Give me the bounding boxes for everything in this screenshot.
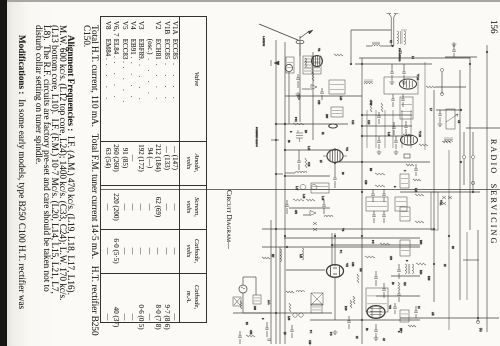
capacitor C11 [377, 136, 381, 149]
small ellipse top cap [329, 124, 337, 128]
hatched box L9 [311, 304, 322, 313]
capacitor C26 [397, 290, 401, 302]
valve V2 ECH81 (triode-heptode) [312, 56, 323, 67]
capacitor C18 [382, 189, 386, 202]
wire lamp [243, 293, 271, 313]
resistor R16 [380, 243, 390, 245]
label value 8 [387, 132, 390, 137]
IF transformer T1 primary [303, 56, 312, 74]
wire node 13 [445, 56, 477, 58]
junction dot 7 [284, 175, 286, 177]
capacitor C22 [382, 283, 386, 298]
wire IF signal bus [361, 58, 363, 344]
capacitor C16 [438, 110, 442, 122]
resistor R17 [365, 256, 375, 258]
junction dot 17 [477, 317, 479, 319]
paragraph: totals [83, 25, 99, 344]
coil box L12b [331, 107, 343, 117]
resistor R4 [306, 199, 315, 201]
resistor R26 [381, 103, 383, 112]
terminal circle gram L [462, 155, 465, 158]
resistor R28 [286, 291, 294, 293]
IF mesh wires [367, 110, 411, 148]
label value 56 [307, 162, 310, 167]
wire node 21 [466, 127, 500, 129]
capacitor C19 [372, 211, 376, 223]
capacitor C34 [238, 331, 242, 344]
capacitor C32 [414, 164, 418, 176]
wire node 9 [284, 175, 330, 177]
valve socket circles [293, 313, 303, 317]
resistor R25 [370, 103, 372, 112]
stub a [271, 139, 279, 141]
capacitor C28 [374, 324, 378, 338]
junction dot 8 [361, 235, 363, 237]
label value 3 [307, 146, 310, 151]
label value 62 [351, 120, 354, 125]
coil L11 [324, 216, 333, 218]
coil L21b [302, 248, 304, 260]
resistor R14 [415, 194, 424, 196]
wire node 5 [233, 312, 332, 314]
label value 0 [294, 117, 297, 122]
ground IF b [394, 150, 399, 154]
label value 28 [317, 48, 320, 52]
resistor R22 [403, 134, 411, 136]
diode arrow D1 [303, 211, 316, 216]
label value 35 [355, 336, 358, 339]
resistor R6 [246, 335, 255, 337]
label value 12 [439, 200, 442, 206]
label 280 [325, 114, 328, 119]
wire output pair b [334, 233, 336, 266]
valve V1B ECC85 [401, 131, 423, 145]
label value 18 [341, 228, 344, 232]
capacitor C24 trimmer [296, 74, 300, 88]
valve V6 EL84 [367, 305, 392, 318]
wire pick-up drop [299, 44, 301, 56]
wire H.T. top rail [486, 45, 488, 332]
wire node 3 [400, 191, 480, 193]
label value 7 [367, 120, 370, 125]
wire IF grid a [362, 114, 412, 116]
capacitor C7 [265, 322, 269, 337]
label value 47 [339, 250, 342, 254]
label value 23 [309, 330, 312, 334]
junction dot 5 [275, 123, 277, 125]
label value 42 [365, 328, 368, 331]
gram pick-up lead [259, 24, 299, 41]
label value 44 [287, 316, 290, 321]
capacitor C21 [374, 271, 378, 286]
aerial corner wire [350, 30, 391, 65]
label value 54 [393, 186, 396, 188]
wire node 17 [285, 95, 362, 97]
label value 1 [317, 100, 320, 105]
label value 58 [321, 196, 324, 201]
wire node 20 [359, 57, 470, 59]
aerial coil L1 [397, 31, 402, 44]
junction dot 20 [460, 161, 462, 163]
diode detector arrow [302, 85, 317, 90]
resistor R1 [284, 123, 304, 125]
page number 156 [489, 20, 499, 34]
resistor R19 [353, 296, 355, 304]
aerial coil L2 [401, 30, 407, 45]
wire chassis rail B [284, 42, 286, 344]
volume pot [446, 109, 458, 129]
wire node 19 [262, 228, 434, 230]
wire node 23 [424, 62, 426, 150]
resistor R8 [406, 164, 414, 166]
junction dot 10 [433, 228, 435, 230]
wire node 4 [400, 317, 499, 319]
label value 27 [389, 40, 392, 44]
label value 22 [283, 332, 286, 335]
junction dot 13 [448, 235, 450, 237]
wire dial lamp feed [477, 230, 479, 322]
resistor R23 [442, 141, 451, 143]
label screened lead [255, 127, 258, 147]
resistor R11 [375, 173, 385, 175]
resistor R3 [293, 199, 304, 201]
resistor R27 [426, 86, 466, 88]
wire IF grid b [362, 125, 412, 127]
paragraph: modifications [18, 25, 26, 344]
wire gram input bus [433, 90, 435, 302]
valve V3 EBF89 [323, 147, 349, 164]
label value 49 [389, 256, 392, 261]
IF transformer T1 secondary [313, 56, 321, 74]
capacitor C29 [404, 121, 408, 134]
terminal circle AE [476, 320, 479, 323]
page edge shadows [0, 0, 500, 2]
resistor R32 [408, 325, 416, 327]
capacitor C37 [290, 325, 294, 338]
coil L14 [444, 138, 453, 142]
terminal circle E1 [441, 69, 444, 72]
FM dipole aerial [387, 14, 399, 47]
pick-up arm arrow [300, 30, 313, 38]
valve V8 EM84 indicator [296, 40, 304, 44]
wire node 2 [336, 161, 430, 163]
terminal circle gram R [471, 155, 474, 158]
label value 25 [429, 108, 432, 112]
label value 53 [364, 180, 367, 185]
wire V6 cathode drop [334, 278, 336, 320]
capacitor C4 [297, 150, 301, 170]
ground aerial [452, 42, 457, 46]
socket ellipse a [300, 185, 306, 190]
arrow dial cord [298, 94, 301, 100]
capacitor C35 [347, 316, 351, 329]
stub b [275, 173, 283, 175]
junction dot 15 [275, 312, 277, 314]
wire node 22 [463, 259, 479, 261]
label value 34 [329, 332, 332, 336]
label value 4 [319, 160, 322, 163]
label value 20 [267, 300, 270, 305]
stub c [275, 228, 286, 237]
lamp holder box [253, 295, 261, 304]
wire anode feed V3 [312, 52, 314, 140]
box L24 [329, 80, 345, 94]
ground bottom a [333, 330, 338, 334]
label value 60 [304, 130, 307, 134]
ground IF a [377, 150, 382, 154]
resistor R29 [240, 301, 242, 309]
aerial choke L5 [366, 42, 393, 47]
switch contacts S2 [442, 196, 452, 205]
junction dot 14 [286, 246, 288, 248]
resistor R21 [416, 263, 426, 265]
wire cathode return [279, 247, 281, 344]
label value 61 [321, 132, 324, 135]
wire node 7 [276, 123, 348, 125]
wire IF grid c [362, 135, 412, 137]
label value 43 [431, 312, 434, 316]
wire mains lead [270, 220, 272, 344]
wire node 6 [262, 246, 420, 248]
resistor R15 [415, 221, 424, 223]
wire AGC bus [459, 70, 461, 300]
box filter [400, 174, 409, 188]
ground C14b [402, 80, 407, 84]
label value 50 [403, 282, 406, 286]
coil L10 [285, 172, 307, 174]
junction dot 21 [486, 51, 488, 53]
label value 41 [308, 340, 311, 345]
label o-Z [479, 328, 482, 332]
label value 57 [295, 186, 298, 191]
resistor R13 [413, 179, 421, 181]
dial lamp LP1 [239, 285, 247, 293]
capacitor C6 [322, 200, 326, 214]
label value 37 [344, 306, 347, 311]
wire FM line [466, 232, 468, 300]
label value 51 [427, 276, 430, 281]
caption: Circuit Diagram [225, 190, 232, 249]
label value 14 [359, 268, 362, 272]
label value 52 [443, 264, 446, 267]
label value 55 [341, 172, 344, 175]
volume control box [431, 192, 438, 230]
converter core bars [304, 59, 320, 71]
IF transformer T4 [395, 197, 407, 211]
terminal circle E2 [441, 93, 444, 96]
valve V5 ECC83 [327, 263, 350, 277]
junction dot 4 [361, 161, 363, 163]
oscillator coil pack [286, 57, 294, 73]
wire node 12 [310, 319, 420, 321]
junction dot 3 [361, 135, 363, 137]
capacitor C25 [320, 88, 324, 100]
junction dot 9 [361, 319, 363, 321]
capacitor C30 [391, 94, 395, 107]
terminal circle PU [471, 181, 474, 184]
valve V4 EB91 (small) [329, 124, 338, 128]
junction dot 6 [284, 149, 286, 151]
capacitor C2 [452, 44, 456, 57]
resistor R2 [305, 158, 307, 168]
label value 9 [369, 168, 372, 172]
junction dot 23 [284, 123, 286, 125]
wire output pair a [331, 233, 333, 266]
wire V5 grid [286, 269, 325, 271]
switch contacts S1 [313, 222, 317, 231]
label value 10 [403, 170, 406, 172]
capacitor C23 [397, 264, 401, 279]
wire node 16 [376, 295, 420, 297]
wire chassis rail A [275, 40, 277, 344]
V1 screen box [384, 77, 418, 94]
paragraph: alignment frequencies [35, 25, 75, 344]
resistor R7 [419, 144, 428, 146]
resistor R33 [262, 257, 270, 259]
label value 29 [339, 96, 342, 101]
label value 39 [261, 318, 264, 320]
wire node 11 [332, 244, 420, 246]
wire anode feed V2 [299, 36, 301, 122]
resistor R20 [398, 282, 400, 290]
capacitor C27 [393, 303, 397, 314]
resistor R12 [375, 185, 385, 187]
label value 6 [294, 210, 297, 215]
dot junction 1 [433, 263, 435, 265]
capacitor C5 [285, 200, 289, 214]
wire tuner line a [463, 132, 465, 185]
capacitor C9 [377, 112, 381, 124]
label 42 [382, 338, 385, 341]
junction dot 12 [472, 191, 474, 193]
wire node 10 [284, 237, 420, 239]
valve voltage table [100, 16, 207, 323]
label value 24 [457, 120, 460, 124]
speaker box [311, 293, 323, 305]
driver transformer T6 [405, 264, 414, 274]
output transformer T5 [366, 288, 388, 312]
label FM aerial [398, 48, 401, 62]
wire node 15 [391, 275, 420, 277]
capacitor C14 pair a [390, 64, 394, 80]
label value 59 [287, 140, 290, 143]
label value 2 [289, 131, 292, 133]
IF transformer T2 [311, 183, 329, 193]
label value 16 [405, 260, 408, 262]
label value 21 [249, 330, 252, 335]
capacitor C10 [392, 122, 396, 135]
junction dot 1 [361, 114, 363, 116]
label value 15 [391, 282, 394, 285]
wire crease (scan fold) [100, 189, 500, 191]
junction dot 18 [331, 244, 333, 246]
label value 31 [419, 240, 422, 245]
junction dot 16 [361, 191, 363, 193]
label value 40 [245, 322, 248, 325]
label value 11 [414, 188, 417, 193]
junction dot 19 [334, 235, 336, 237]
wire lamp2 [243, 277, 256, 295]
capacitor C8 [267, 339, 271, 341]
mains plug box [233, 297, 241, 306]
switch bank box [400, 240, 410, 256]
label value 32 [451, 246, 454, 249]
junction dot 22 [469, 63, 471, 65]
capacitor C3 electrolytic [296, 130, 303, 142]
label value 30 [369, 100, 372, 106]
wire osc drop [288, 72, 290, 124]
ground bottom b [374, 336, 379, 340]
label value 33 [399, 328, 402, 333]
wire screen feed [441, 72, 443, 94]
resistor R10 [312, 72, 314, 81]
ground C14a [390, 80, 395, 84]
resistor R5 [289, 303, 291, 312]
wire heater rail [469, 57, 471, 230]
wire node 8 [284, 149, 336, 151]
label value 46 [271, 254, 274, 258]
IF transformer T3 [366, 197, 388, 211]
socket ellipse b [311, 185, 317, 190]
label value 5 [302, 194, 305, 199]
wire node 14 [436, 109, 462, 111]
label value 26 [411, 56, 414, 60]
ground C16 [438, 122, 443, 126]
resistor R31 [350, 300, 352, 308]
label value 38 [417, 306, 420, 309]
coil L3 [364, 80, 373, 84]
junction dot 0 [361, 63, 363, 65]
label value 36 [397, 331, 400, 333]
label L.S. socket [262, 36, 264, 46]
capacitor C20 [382, 211, 386, 223]
capacitor C12 [394, 136, 398, 149]
box L15 [400, 207, 410, 221]
capacitor C14 pair b [402, 64, 406, 80]
junction dot 11 [460, 109, 462, 111]
coil box L20 [400, 97, 413, 119]
hatched box L9b [400, 310, 409, 322]
connection arrow AGC [271, 60, 279, 66]
resistor R9 [334, 54, 343, 56]
junction dot 2 [361, 125, 363, 127]
wire tuner line b [472, 132, 474, 192]
ground converter [296, 92, 301, 96]
valve V1A ECC85 [400, 74, 421, 89]
capacitor C13 [333, 164, 337, 188]
wire node 1 [355, 63, 432, 65]
label value 48 [351, 262, 354, 267]
label value 45 [253, 306, 256, 311]
resistor R18 [357, 274, 359, 283]
oscillator coil can L12 [285, 64, 292, 71]
wire node 18 [289, 207, 330, 209]
wire AM aerial line [448, 150, 450, 330]
label value 17 [419, 270, 422, 275]
label value 13 [371, 240, 374, 244]
label value 19 [299, 254, 302, 259]
coil L22 [296, 291, 304, 292]
capacitor C31 [401, 94, 405, 107]
running head RADIO SERVICING [489, 139, 498, 246]
capacitor C17 [371, 189, 375, 202]
capacitor C36 [414, 306, 418, 318]
capacitor C15 [404, 154, 410, 158]
capacitor C1 [400, 50, 402, 54]
coil L23 [280, 249, 282, 262]
